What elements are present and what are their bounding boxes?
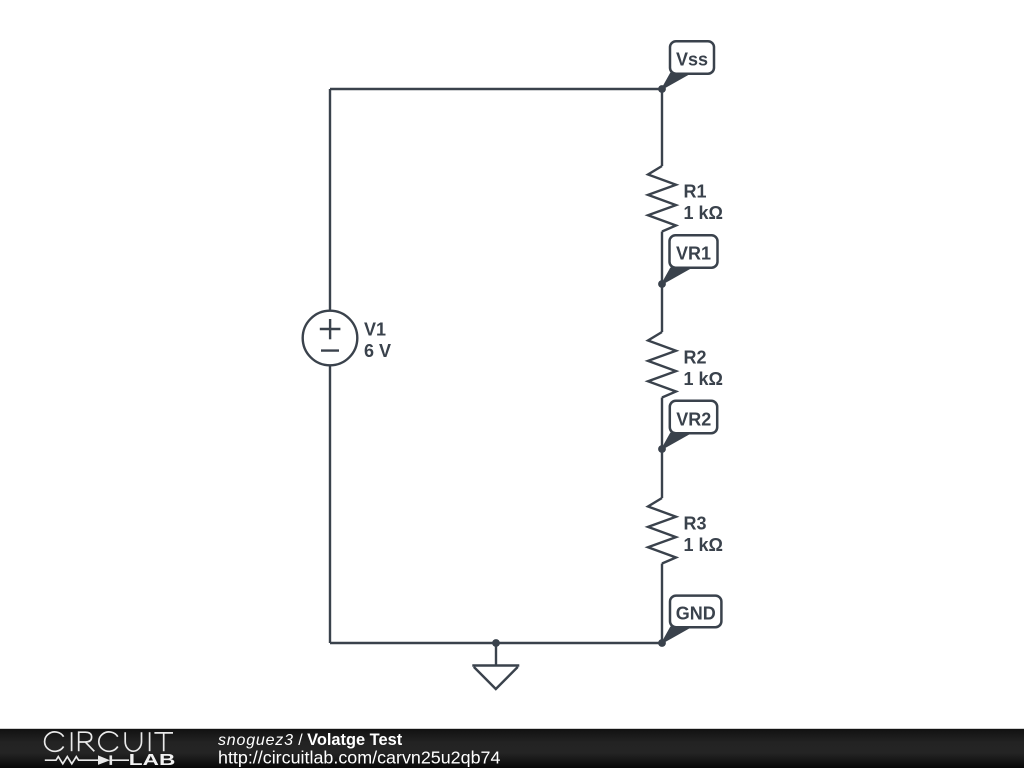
voltage source V1: [303, 311, 358, 366]
svg-text:http://circuitlab.com/carvn25u: http://circuitlab.com/carvn25u2qb74: [218, 748, 500, 768]
svg-text:R1: R1: [684, 181, 707, 201]
node Vss junction dot: [658, 85, 666, 93]
net flag Vss: [662, 41, 714, 89]
svg-text:V1: V1: [364, 320, 386, 340]
net flag GND: [662, 596, 721, 643]
node GND junction dot: [658, 639, 666, 647]
wire R3 to GND node: [661, 564, 663, 644]
svg-text:1 kΩ: 1 kΩ: [684, 203, 723, 223]
wire bottom rail: [330, 642, 662, 644]
svg-text:VR2: VR2: [676, 409, 711, 429]
svg-text:VR1: VR1: [676, 244, 711, 264]
wire top rail: [330, 88, 662, 90]
svg-text:1 kΩ: 1 kΩ: [684, 535, 723, 555]
svg-text:GND: GND: [676, 604, 716, 624]
ground symbol: [472, 643, 519, 689]
resistor R3: [648, 498, 676, 564]
wire R2 to R3 through node VR2: [661, 398, 663, 499]
svg-text:Vss: Vss: [676, 50, 708, 70]
svg-text:R3: R3: [684, 513, 707, 533]
resistor R1: [648, 166, 676, 232]
wire left rail upper: [329, 89, 331, 311]
svg-text:R2: R2: [684, 347, 707, 367]
net flag VR1: [662, 235, 718, 284]
CircuitLab logo word CIRCUIT: [45, 732, 173, 751]
svg-text:1 kΩ: 1 kΩ: [684, 369, 723, 389]
CircuitLab logo resistor-diode glyph: [45, 755, 129, 765]
footer bar: [0, 729, 1024, 768]
node VR1 junction dot: [658, 280, 666, 288]
node VR2 junction dot: [658, 445, 666, 453]
wire Vss node to R1: [661, 89, 663, 166]
resistor R2: [648, 332, 676, 398]
svg-text:snoguez3 / Volatge Test: snoguez3 / Volatge Test: [218, 731, 403, 749]
node junction dot (ground on bottom rail): [492, 639, 500, 647]
wire R1 to R2 through node VR1: [661, 232, 663, 333]
net flag VR2: [662, 401, 717, 449]
svg-text:6 V: 6 V: [364, 341, 391, 361]
svg-text:LAB: LAB: [129, 752, 176, 768]
wire left rail lower: [329, 365, 331, 643]
